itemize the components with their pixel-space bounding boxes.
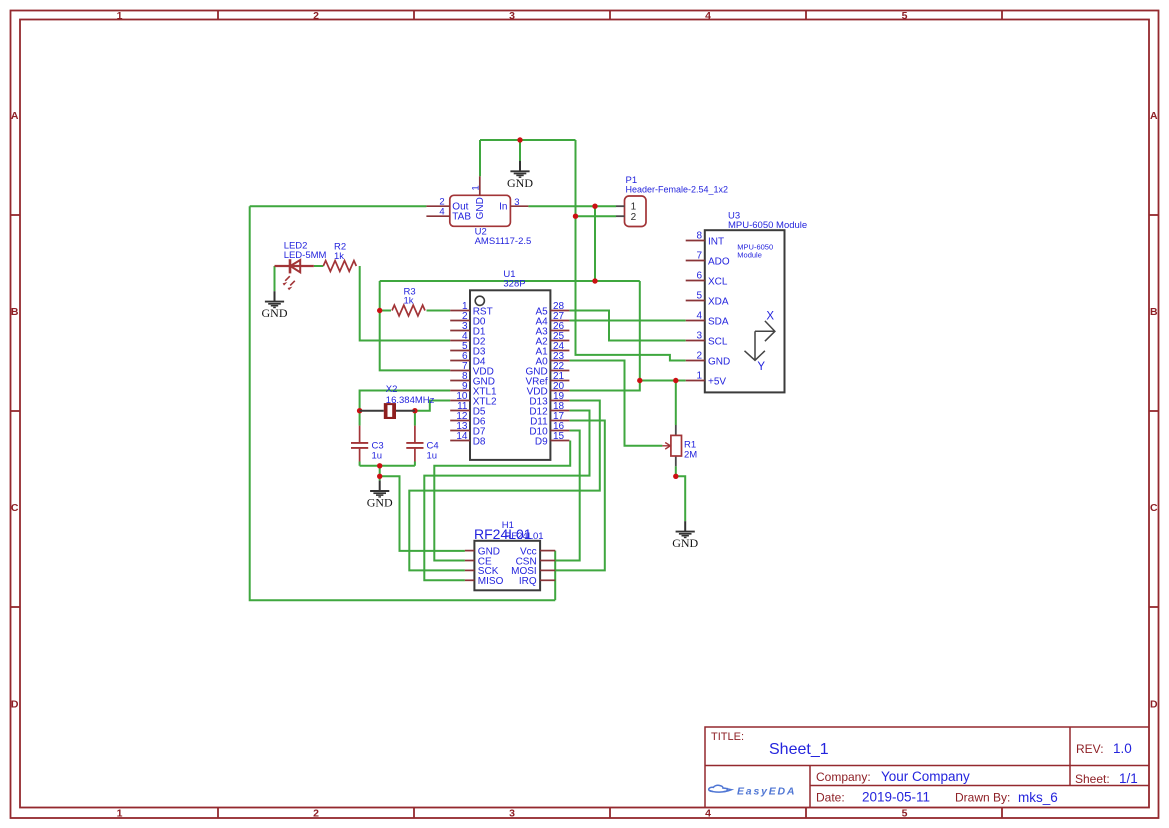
voltage regulator U2 AMS1117-2.5 <box>426 176 531 247</box>
junction dot <box>377 308 382 313</box>
svg-text:1k: 1k <box>334 251 344 262</box>
svg-text:Company:: Company: <box>816 770 871 784</box>
svg-text:GND: GND <box>367 496 393 510</box>
svg-text:A: A <box>1150 110 1158 122</box>
svg-text:5: 5 <box>902 808 908 820</box>
svg-text:TAB: TAB <box>452 212 471 223</box>
svg-text:In: In <box>499 201 507 212</box>
svg-text:1/1: 1/1 <box>1119 771 1138 786</box>
svg-text:3: 3 <box>509 808 515 820</box>
U3 axes glyph <box>745 321 775 360</box>
EasyEDA logo <box>709 785 732 792</box>
svg-text:GND: GND <box>262 306 288 320</box>
svg-text:3: 3 <box>509 10 515 22</box>
svg-text:X: X <box>766 311 774 323</box>
svg-text:4: 4 <box>705 808 711 820</box>
wire D11 to RF MOSI <box>555 421 605 571</box>
svg-text:REV:: REV: <box>1076 742 1104 756</box>
ground GND near U2 <box>510 161 529 177</box>
svg-text:B: B <box>1150 306 1158 318</box>
junction dot <box>357 408 362 413</box>
svg-text:Date:: Date: <box>816 791 845 805</box>
svg-text:16.384MHz: 16.384MHz <box>386 395 435 406</box>
svg-text:5: 5 <box>696 291 702 302</box>
svg-text:IRQ: IRQ <box>519 576 537 587</box>
wire X2 to XTL2 <box>415 401 450 411</box>
svg-text:8: 8 <box>696 231 702 242</box>
svg-text:2: 2 <box>313 808 319 820</box>
wire Out rail down and across <box>250 206 556 600</box>
wire U2 Out <box>250 205 427 207</box>
svg-text:2: 2 <box>631 212 637 223</box>
wire +5V to U1 VDD pin7 <box>380 281 451 370</box>
wire to ground symbol <box>519 140 521 161</box>
svg-text:1: 1 <box>117 10 123 22</box>
wire GND to U3 pin2 <box>576 140 686 361</box>
svg-text:Sheet:: Sheet: <box>1075 772 1110 786</box>
svg-text:2M: 2M <box>684 449 697 460</box>
svg-text:1: 1 <box>696 371 702 382</box>
svg-text:Module: Module <box>737 251 762 260</box>
svg-text:LED-5MM: LED-5MM <box>284 250 327 261</box>
wire X2 to XTL1 <box>360 391 451 411</box>
wire R3 to U1 RST <box>427 310 451 312</box>
junction dot <box>673 378 678 383</box>
junction dot <box>673 474 678 479</box>
svg-text:1.0: 1.0 <box>1113 741 1132 756</box>
crystal X2 16.384MHz <box>360 384 435 419</box>
wire +5V horizontal <box>380 280 640 282</box>
junction dot <box>637 378 642 383</box>
svg-text:D: D <box>1150 699 1158 711</box>
svg-text:SDA: SDA <box>708 316 729 327</box>
wire to C4 top <box>414 411 416 426</box>
svg-text:15: 15 <box>553 431 565 442</box>
svg-text:1: 1 <box>117 808 123 820</box>
svg-text:C: C <box>1150 502 1158 514</box>
svg-text:MISO: MISO <box>478 576 504 587</box>
svg-text:5: 5 <box>902 10 908 22</box>
svg-text:MPU-6050 Module: MPU-6050 Module <box>728 220 807 231</box>
wire up to RF Vcc <box>554 551 556 601</box>
ground GND under LED2 <box>265 291 284 307</box>
wire A0 to R1 wiper <box>569 361 662 446</box>
svg-text:SCL: SCL <box>708 336 728 347</box>
svg-text:3: 3 <box>514 197 519 208</box>
svg-text:1u: 1u <box>372 450 383 461</box>
wire D12 to RF MISO <box>424 411 589 581</box>
svg-text:4: 4 <box>696 311 702 322</box>
svg-text:XCL: XCL <box>708 276 728 287</box>
wire LED cathode to ground <box>274 266 276 291</box>
wire A4 to U3 SDA <box>569 320 685 322</box>
resistor R3 1k <box>392 286 425 316</box>
wire D10 to RF CSN <box>555 431 580 561</box>
wire to ground node <box>379 466 381 477</box>
svg-text:EasyEDA: EasyEDA <box>737 785 796 797</box>
svg-text:C: C <box>11 502 19 514</box>
svg-text:mks_6: mks_6 <box>1018 790 1058 805</box>
svg-text:6: 6 <box>696 271 702 282</box>
LED LED2 LED-5MM <box>275 259 314 285</box>
svg-text:Sheet_1: Sheet_1 <box>769 741 829 758</box>
svg-text:ADO: ADO <box>708 256 730 267</box>
svg-text:4: 4 <box>705 10 711 22</box>
wire to R1 top <box>675 381 677 426</box>
svg-text:+5V: +5V <box>708 376 726 387</box>
svg-text:Drawn By:: Drawn By: <box>955 791 1010 805</box>
svg-text:14: 14 <box>456 431 468 442</box>
wire D13 to RF SCK <box>409 401 600 571</box>
junction dot <box>592 278 597 283</box>
wire R1 bottom <box>675 466 677 476</box>
wire LED to R2 <box>314 265 324 267</box>
ground GND under caps <box>370 481 389 497</box>
wire stub to ground <box>379 476 381 480</box>
svg-text:1u: 1u <box>427 450 438 461</box>
module H1 RF24L01 <box>465 520 555 590</box>
junction dot <box>377 474 382 479</box>
svg-text:7: 7 <box>696 251 702 262</box>
svg-text:XDA: XDA <box>708 296 729 307</box>
svg-text:B: B <box>11 306 19 318</box>
wire C4 bottom <box>414 462 416 466</box>
wire C3 bottom <box>359 462 361 466</box>
wire ground to RF GND pin <box>380 476 465 551</box>
svg-text:GND: GND <box>672 536 698 550</box>
svg-text:X2: X2 <box>386 384 398 395</box>
svg-text:2: 2 <box>696 351 702 362</box>
wire +5V vertical <box>594 206 596 281</box>
svg-text:1: 1 <box>471 185 482 190</box>
ground GND under R1 <box>676 521 695 537</box>
svg-text:2: 2 <box>313 10 319 22</box>
wire +5V to U1 VDD pin20 <box>569 381 639 391</box>
wire R1 to ground <box>676 476 685 521</box>
svg-text:GND: GND <box>475 197 486 219</box>
svg-text:GND: GND <box>507 176 533 190</box>
svg-text:A: A <box>11 110 19 122</box>
wire cap common <box>360 465 415 467</box>
microcontroller U1 328P <box>450 269 569 460</box>
svg-text:GND: GND <box>708 356 730 367</box>
wire R3 left <box>380 310 391 312</box>
wire to C3 top <box>359 411 361 426</box>
svg-text:Header-Female-2.54_1x2: Header-Female-2.54_1x2 <box>626 185 729 195</box>
wire A5 to U3 SCL <box>569 311 685 341</box>
svg-text:AMS1117-2.5: AMS1117-2.5 <box>475 236 532 247</box>
svg-text:RF24L01: RF24L01 <box>505 531 544 542</box>
junction dot <box>573 214 578 219</box>
potentiometer R1 2M <box>662 425 697 466</box>
title block <box>705 727 1149 808</box>
svg-text:Y: Y <box>757 361 765 373</box>
wire GND top rail <box>480 139 576 141</box>
module U3 MPU-6050 <box>686 211 808 393</box>
resistor R2 1k <box>323 242 356 272</box>
svg-text:D: D <box>11 699 19 711</box>
svg-text:1k: 1k <box>404 296 414 307</box>
connector P1 Header-Female-2.54_1x2 <box>616 175 728 227</box>
wire +5V to U3 pin1 <box>640 380 686 382</box>
svg-text:D8: D8 <box>473 436 486 447</box>
svg-text:3: 3 <box>696 331 702 342</box>
svg-text:D9: D9 <box>535 436 548 447</box>
svg-text:4: 4 <box>439 207 444 218</box>
wire U2 In to P1 pin1 <box>528 205 616 207</box>
svg-text:328P: 328P <box>503 278 525 289</box>
wire GND to P1 pin2 <box>576 215 617 217</box>
junction dot <box>592 204 597 209</box>
capacitor C3 1u <box>351 426 368 462</box>
svg-text:2019-05-11: 2019-05-11 <box>862 790 930 805</box>
wire +5V down <box>639 281 641 381</box>
svg-text:TITLE:: TITLE: <box>711 731 744 743</box>
wire to U2 pin1 <box>479 140 481 176</box>
wire R2 to U1 D2 <box>360 266 451 341</box>
junction dot <box>412 408 417 413</box>
junction dot <box>517 137 522 142</box>
capacitor C4 1u <box>406 426 423 462</box>
junction dot <box>377 463 382 468</box>
wire D9 to RF CE <box>434 441 570 561</box>
svg-text:INT: INT <box>708 236 724 247</box>
svg-text:Your Company: Your Company <box>881 769 970 784</box>
